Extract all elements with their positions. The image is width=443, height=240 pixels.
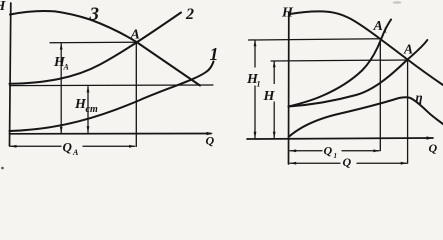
svg-text:A: A (130, 28, 140, 43)
svg-text:Q: Q (343, 155, 352, 169)
svg-text:H: H (0, 0, 7, 14)
svg-text:ст: ст (86, 104, 98, 115)
svg-text:3: 3 (89, 4, 100, 25)
svg-text:A: A (373, 19, 383, 34)
svg-text:Q: Q (63, 140, 73, 155)
svg-text:Q: Q (206, 134, 215, 148)
svg-text:1: 1 (257, 80, 261, 89)
svg-text:2: 2 (185, 6, 194, 23)
svg-text:A: A (403, 42, 413, 57)
svg-text:η: η (416, 90, 423, 105)
svg-text:1: 1 (210, 44, 219, 64)
svg-text:1: 1 (384, 26, 388, 35)
svg-text:H: H (263, 89, 276, 104)
svg-text:H: H (281, 6, 294, 21)
svg-text:Q: Q (429, 141, 438, 155)
svg-text:A: A (72, 148, 79, 157)
svg-text:A: A (63, 63, 70, 72)
svg-text:1: 1 (334, 152, 338, 160)
svg-text:Q: Q (324, 144, 333, 158)
